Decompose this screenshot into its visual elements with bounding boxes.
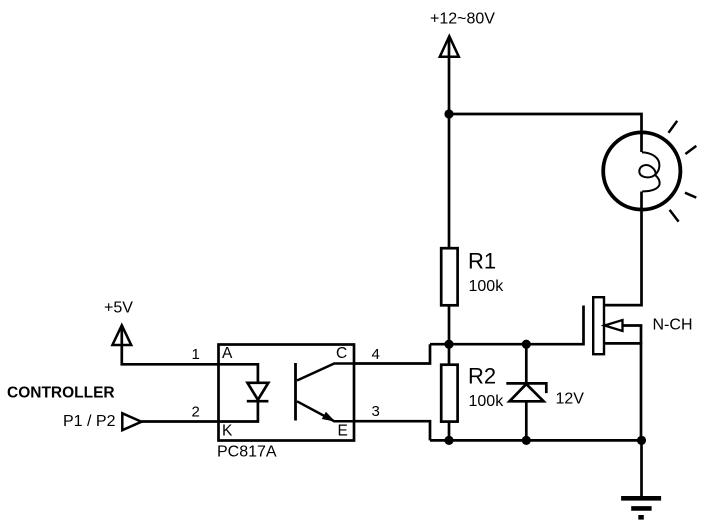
transistor Q1 source lead xyxy=(604,342,642,345)
svg-text:12V: 12V xyxy=(556,391,585,408)
lamp ray 4 xyxy=(670,210,679,222)
power symbol +5V arrow xyxy=(112,325,131,345)
transistor Q1 body arrow lead xyxy=(620,324,642,327)
lamp ray 1 xyxy=(669,121,678,133)
svg-text:K: K xyxy=(222,423,233,440)
svg-text:+12~80V: +12~80V xyxy=(430,11,495,28)
svg-text:100k: 100k xyxy=(469,278,505,295)
opto U1 emitter arrowhead xyxy=(323,413,334,421)
opto U1 LED cathode wire xyxy=(219,401,258,421)
wire +5V to opto pin 1 xyxy=(122,326,219,364)
lamp ray 3 xyxy=(685,193,696,198)
input terminal triangle P1/P2 xyxy=(122,413,141,430)
zener diode D1 bottom wire xyxy=(525,401,528,440)
node junction top xyxy=(444,109,453,118)
svg-text:E: E xyxy=(338,423,348,440)
zener diode D1 top wire xyxy=(525,344,528,383)
svg-text:PC817A: PC817A xyxy=(217,444,277,461)
power symbol +12~80V arrow xyxy=(440,36,459,57)
lamp LA1 bulb circle xyxy=(603,132,680,209)
resistor R2 xyxy=(441,365,457,422)
wire P1/P2 to opto pin 2 xyxy=(142,420,219,423)
node junction bottom at R2 xyxy=(444,436,453,445)
svg-text:R2: R2 xyxy=(468,364,496,389)
wire bottom row horizontal xyxy=(430,439,642,442)
svg-text:100k: 100k xyxy=(469,393,505,410)
opto U1 LED cathode bar xyxy=(247,400,269,403)
wire source down to bottom row xyxy=(640,326,643,441)
wire opto pin 3 to bottom row xyxy=(354,421,430,440)
opto U1 phototransistor base line xyxy=(294,363,297,421)
svg-text:P1 / P2: P1 / P2 xyxy=(63,413,116,430)
svg-text:1: 1 xyxy=(192,346,200,363)
node junction bottom at source xyxy=(637,436,646,445)
wire main vertical from supply to R1 xyxy=(448,37,451,250)
opto U1 LED anode wire xyxy=(219,364,258,383)
svg-text:N-CH: N-CH xyxy=(653,317,693,334)
svg-text:A: A xyxy=(222,345,233,362)
lamp ray 2 xyxy=(685,146,696,154)
node junction gate row at zener xyxy=(522,340,531,349)
ground bar 2 xyxy=(631,506,651,511)
transistor Q1 MOSFET gate vertical xyxy=(582,306,585,346)
node junction bottom at zener xyxy=(522,436,531,445)
node junction gate row at R1/R2 xyxy=(444,340,453,349)
svg-text:R1: R1 xyxy=(468,249,496,274)
opto U1 PC817A box xyxy=(219,345,355,441)
svg-text:CONTROLLER: CONTROLLER xyxy=(7,385,115,402)
transistor Q1 MOSFET body rectangle xyxy=(593,297,604,354)
ground bar 3 xyxy=(638,515,644,520)
opto U1 phototransistor emitter xyxy=(297,401,354,421)
zener diode D1 triangle xyxy=(510,384,544,401)
wire lamp bottom to MOSFET drain xyxy=(604,192,642,306)
svg-text:2: 2 xyxy=(192,404,200,421)
transistor Q1 drain lead xyxy=(604,304,641,307)
wire horizontal top to lamp xyxy=(449,114,642,152)
wire gate row horizontal xyxy=(430,343,584,346)
zener diode D1 cathode bar xyxy=(506,383,546,393)
ground bar 1 xyxy=(621,496,661,501)
resistor R1 xyxy=(441,248,457,305)
wire R2 bottom stub xyxy=(448,421,451,440)
svg-text:C: C xyxy=(336,345,347,362)
svg-text:4: 4 xyxy=(372,346,380,363)
opto U1 LED triangle xyxy=(248,383,269,400)
svg-text:3: 3 xyxy=(372,403,380,420)
svg-text:+5V: +5V xyxy=(104,300,133,317)
lamp filament xyxy=(639,152,659,191)
wire opto pin 4 to gate row xyxy=(354,344,430,363)
wire ground stem xyxy=(640,440,643,498)
transistor Q1 body arrow xyxy=(605,320,623,331)
wire R1 bottom to gate row xyxy=(448,305,451,365)
opto U1 phototransistor collector xyxy=(297,364,354,381)
